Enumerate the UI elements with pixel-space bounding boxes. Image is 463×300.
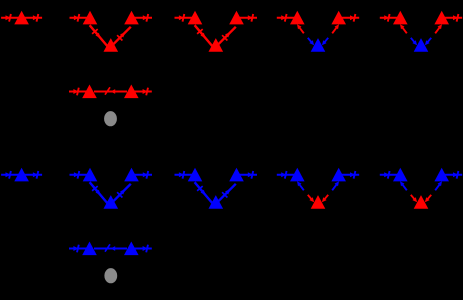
site triangle bottom, bottom chain unit 2 <box>209 195 224 209</box>
flipped site triangle bottom, bottom chain unit 3 <box>311 195 326 209</box>
coupling arrow left of unit 1 top-left, top chain <box>70 14 88 22</box>
bond arrow J down-right with slash, bottom chain unit 2 <box>195 182 213 203</box>
dimer triangle left, top <box>82 85 97 99</box>
coupling arrow right of unit 1 top-right, top chain <box>135 14 153 22</box>
site triangle bottom, bottom chain unit 1 <box>104 195 119 209</box>
flipped site triangle bottom, top chain unit 3 <box>311 38 326 52</box>
site triangle top-right, bottom chain unit 4 <box>434 168 449 182</box>
site triangle top-left, top chain unit 1 <box>83 11 98 25</box>
flipped site triangle bottom, bottom chain unit 4 <box>414 195 429 209</box>
outward arrow left, bottom dimer <box>69 245 87 253</box>
bond arrow J up-right with slash, bottom chain unit 1 <box>112 184 130 202</box>
lone site triangle far-left, bottom chain <box>14 168 29 182</box>
displacement arrow down-left, bottom chain unit 3 <box>322 195 328 202</box>
bond arrow J up-right with slash, bottom chain unit 2 <box>217 184 235 202</box>
bond arrow J down-right with slash, top chain unit 1 <box>90 25 108 46</box>
site triangle bottom, top chain unit 2 <box>209 38 224 52</box>
coupling arrow right of unit 3 top-right, bottom chain <box>342 171 360 179</box>
phonon node circle, top <box>104 111 117 126</box>
flipped site triangle bottom, top chain unit 4 <box>414 38 429 52</box>
site triangle top-right, bottom chain unit 2 <box>229 168 244 182</box>
displacement arrow up-left, top chain unit 3 <box>297 24 304 33</box>
dimer triangle left, bottom <box>82 242 97 256</box>
coupling arrow right of unit 1 top-right, bottom chain <box>135 171 153 179</box>
coupling arrow right of unit 4 top-right, top chain <box>445 14 463 22</box>
displacement arrow up-left, top chain unit 4 <box>400 24 407 33</box>
displacement arrow up-right, top chain unit 3 <box>332 24 339 33</box>
site triangle top-right, top chain unit 2 <box>229 11 244 25</box>
coupling arrow left of unit 1 top-left, bottom chain <box>70 171 88 179</box>
displacement arrow down-left, top chain unit 3 <box>322 38 328 45</box>
bond arrow J up-right with slash, top chain unit 1 <box>112 27 130 45</box>
dimer triangle right, top <box>124 85 139 99</box>
coupling arrow right of unit 4 top-right, bottom chain <box>445 171 463 179</box>
coupling arrow at left edge, bottom chain <box>1 171 19 179</box>
displacement arrow down-right, top chain unit 4 <box>411 38 417 45</box>
site triangle top-left, bottom chain unit 2 <box>188 168 203 182</box>
coupling arrow right of unit 2 top-right, bottom chain <box>240 171 258 179</box>
displacement arrow up-right, bottom chain unit 3 <box>332 181 339 190</box>
displacement arrow up-right, top chain unit 4 <box>435 24 442 33</box>
dimer bond with slash and arrow, top <box>94 87 127 94</box>
coupling arrow right of unit 3 top-right, top chain <box>342 14 360 22</box>
dimer bond with slash and arrow, bottom <box>94 244 127 251</box>
site triangle top-left, top chain unit 3 <box>290 11 305 25</box>
dimer triangle right, bottom <box>124 242 139 256</box>
site triangle top-right, top chain unit 3 <box>331 11 346 25</box>
lone site triangle far-left, top chain <box>14 11 29 25</box>
coupling arrow right of far-left triangle, bottom chain <box>25 171 42 179</box>
site triangle bottom, top chain unit 1 <box>104 38 119 52</box>
displacement arrow up-right, bottom chain unit 4 <box>435 181 442 190</box>
site triangle top-left, top chain unit 2 <box>188 11 203 25</box>
displacement arrow down-right, bottom chain unit 3 <box>308 195 314 202</box>
outward arrow left, top dimer <box>69 88 87 96</box>
displacement arrow up-left, bottom chain unit 3 <box>297 181 304 190</box>
site triangle top-right, top chain unit 1 <box>124 11 139 25</box>
coupling arrow left of unit 3 top-left, bottom chain <box>277 171 295 179</box>
outward arrow right, bottom dimer <box>134 245 152 253</box>
site triangle top-left, bottom chain unit 3 <box>290 168 305 182</box>
coupling arrow left of unit 3 top-left, top chain <box>277 14 295 22</box>
site triangle top-right, top chain unit 4 <box>434 11 449 25</box>
site triangle top-right, bottom chain unit 1 <box>124 168 139 182</box>
site triangle top-left, top chain unit 4 <box>393 11 408 25</box>
displacement arrow down-left, bottom chain unit 4 <box>425 195 431 202</box>
displacement arrow down-right, bottom chain unit 4 <box>411 195 417 202</box>
outward arrow right, top dimer <box>134 88 152 96</box>
coupling arrow left of unit 2 top-left, bottom chain <box>175 171 193 179</box>
site triangle top-left, bottom chain unit 4 <box>393 168 408 182</box>
coupling arrow at left edge, top chain <box>1 14 19 22</box>
displacement arrow up-left, bottom chain unit 4 <box>400 181 407 190</box>
site triangle top-right, bottom chain unit 3 <box>331 168 346 182</box>
coupling arrow left of unit 4 top-left, bottom chain <box>380 171 398 179</box>
bond arrow J down-right with slash, top chain unit 2 <box>195 25 213 46</box>
coupling arrow left of unit 2 top-left, top chain <box>175 14 193 22</box>
coupling arrow left of unit 4 top-left, top chain <box>380 14 398 22</box>
coupling arrow right of far-left triangle, top chain <box>25 14 42 22</box>
phonon node circle, bottom <box>104 268 117 283</box>
displacement arrow down-right, top chain unit 3 <box>308 38 314 45</box>
site triangle top-left, bottom chain unit 1 <box>83 168 98 182</box>
displacement arrow down-left, top chain unit 4 <box>425 38 431 45</box>
bond arrow J down-right with slash, bottom chain unit 1 <box>90 182 108 203</box>
bond arrow J up-right with slash, top chain unit 2 <box>217 27 235 45</box>
coupling arrow right of unit 2 top-right, top chain <box>240 14 258 22</box>
